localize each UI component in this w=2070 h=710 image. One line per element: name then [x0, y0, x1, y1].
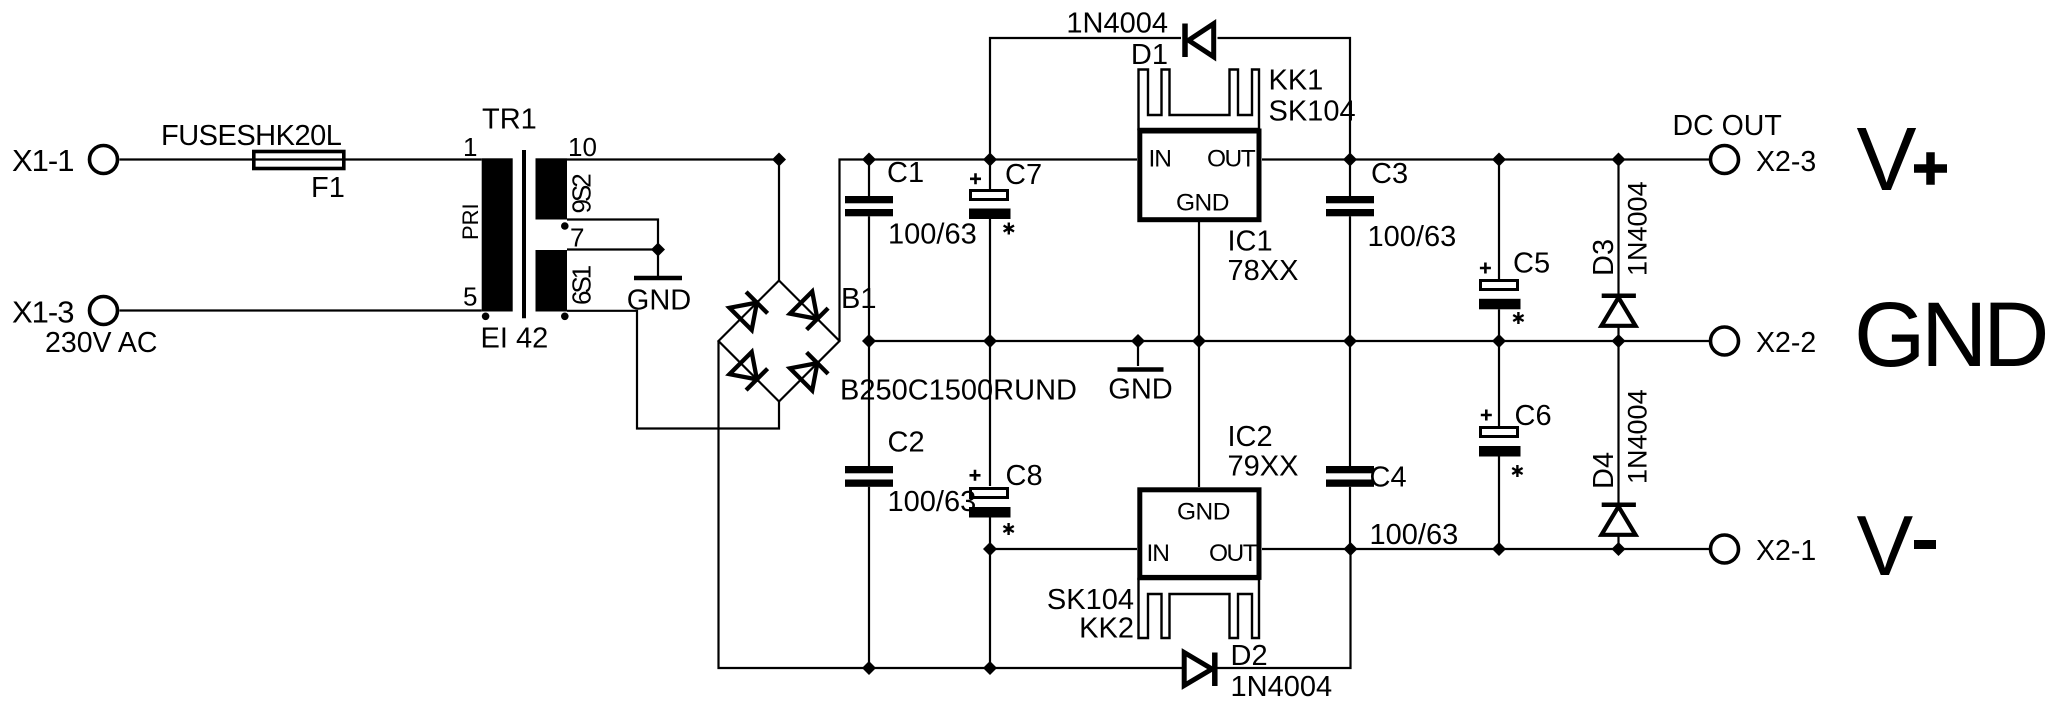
- svg-text:OUT: OUT: [1207, 146, 1256, 173]
- capacitor C2: [845, 341, 893, 668]
- svg-text:C7: C7: [1005, 159, 1042, 191]
- terminal X1-1: [90, 146, 118, 174]
- svg-text:KK2: KK2: [1079, 613, 1134, 645]
- capacitor C1: [845, 160, 893, 342]
- junction C1/C2 gnd: [862, 334, 876, 348]
- transformer TR1 secondary winding S2: [536, 158, 568, 219]
- svg-text:IN: IN: [1149, 146, 1172, 173]
- wire X1-1 to TR1 pin 1: [120, 158, 482, 160]
- svg-text:C5: C5: [1513, 248, 1550, 280]
- svg-text:1N4004: 1N4004: [1231, 671, 1333, 703]
- wire IC1 OUT to top rail: [1262, 158, 1350, 160]
- asterisk C6: [1512, 465, 1522, 477]
- pin dot TR1 pin 7: [561, 222, 569, 230]
- junction C2 bottom rail: [862, 661, 876, 675]
- gnd rail: [869, 340, 1709, 342]
- svg-text:1N4004: 1N4004: [1066, 8, 1168, 40]
- asterisk C5: [1513, 312, 1523, 324]
- junction gnd symbol: [1131, 334, 1145, 348]
- svg-text:IN: IN: [1147, 540, 1170, 567]
- bridge diode bottom-right: [790, 352, 828, 390]
- svg-text:6S1: 6S1: [567, 265, 597, 305]
- junction pin10/bridge: [772, 153, 786, 167]
- transformer TR1 core: [522, 150, 526, 318]
- svg-text:230V AC: 230V AC: [45, 327, 158, 359]
- wire TR1 pin 9 to center-tap junction: [567, 220, 658, 250]
- diode D1 loop wire: [990, 38, 1350, 160]
- fuse F1: [254, 152, 344, 169]
- capacitor C8 (electrolytic): [969, 341, 1011, 668]
- svg-text:C6: C6: [1515, 400, 1552, 432]
- heatsink KK1: [1139, 70, 1260, 130]
- top rail to output: [1350, 158, 1709, 160]
- svg-text:IC2: IC2: [1228, 421, 1273, 453]
- svg-text:D2: D2: [1231, 640, 1268, 672]
- wire IC2 IN: [990, 548, 1137, 550]
- terminal X2-3: [1711, 146, 1739, 174]
- svg-text:C1: C1: [887, 157, 924, 189]
- svg-text:X1-1: X1-1: [12, 143, 73, 178]
- voltage regulator IC2 box: [1140, 490, 1259, 578]
- svg-text:B250C1500RUND: B250C1500RUND: [840, 375, 1077, 407]
- svg-text:B1: B1: [841, 283, 876, 315]
- wire X1-3 to TR1 pin 5: [120, 309, 482, 311]
- transformer TR1 primary winding: [482, 158, 513, 311]
- wire TR1 pin 10 to bridge top: [567, 158, 779, 160]
- svg-text:V: V: [1857, 499, 1914, 594]
- svg-text:X2-3: X2-3: [1756, 146, 1816, 178]
- junction C8 / IC2 IN: [983, 542, 997, 556]
- svg-text:IC1: IC1: [1228, 226, 1273, 258]
- junction IC2 OUT / C4 / D2: [1344, 542, 1358, 556]
- svg-text:SK104: SK104: [1269, 96, 1356, 128]
- svg-text:1N4004: 1N4004: [1623, 181, 1653, 276]
- svg-text:1: 1: [463, 132, 477, 162]
- net label V-: [1857, 499, 1937, 594]
- svg-text:100/63: 100/63: [888, 486, 977, 518]
- junction D3 gnd: [1612, 334, 1626, 348]
- asterisk C7: [1004, 223, 1014, 235]
- wire TR1 pin 7 to center-tap junction: [567, 248, 658, 250]
- junction C6 bottom: [1492, 542, 1506, 556]
- svg-text:79XX: 79XX: [1228, 451, 1299, 483]
- terminal X2-1: [1711, 535, 1739, 563]
- pin dot TR1 pin 5: [482, 313, 490, 321]
- capacitor C6 (electrolytic): [1479, 341, 1521, 549]
- junction C5 top: [1492, 153, 1506, 167]
- svg-text:7: 7: [570, 223, 584, 253]
- plus sign C5: [1480, 263, 1491, 274]
- svg-text:1N4004: 1N4004: [1623, 389, 1653, 484]
- svg-text:100/63: 100/63: [1370, 519, 1459, 551]
- svg-text:C4: C4: [1370, 462, 1407, 494]
- svg-text:10: 10: [568, 132, 597, 162]
- voltage regulator IC1 box: [1140, 131, 1259, 220]
- svg-text:C3: C3: [1371, 158, 1408, 190]
- capacitor C7 (electrolytic): [969, 160, 1011, 342]
- svg-text:X2-2: X2-2: [1756, 327, 1816, 359]
- svg-text:GND: GND: [1854, 284, 2046, 386]
- junction C1 top: [862, 153, 876, 167]
- svg-text:5: 5: [463, 282, 477, 312]
- bridge diode top-left: [730, 292, 768, 330]
- svg-text:OUT: OUT: [1209, 540, 1258, 567]
- svg-text:GND: GND: [1108, 374, 1172, 406]
- plus sign C7: [970, 173, 981, 184]
- svg-text:DC OUT: DC OUT: [1673, 110, 1782, 142]
- heatsink KK2: [1139, 579, 1260, 638]
- svg-text:F1: F1: [311, 172, 345, 204]
- svg-text:D4: D4: [1588, 452, 1620, 489]
- capacitor C4: [1326, 341, 1374, 549]
- svg-text:D3: D3: [1588, 239, 1620, 276]
- plus sign C8: [970, 470, 981, 481]
- wire bridge top vertex up to AC node: [778, 160, 780, 281]
- svg-text:X2-1: X2-1: [1756, 535, 1816, 567]
- svg-text:100/63: 100/63: [888, 219, 977, 251]
- v-minus rail to output: [1351, 548, 1710, 550]
- svg-text:TR1: TR1: [482, 104, 537, 136]
- junction C5/C6 gnd: [1492, 334, 1506, 348]
- net label V+: [1857, 110, 1948, 210]
- svg-text:9S2: 9S2: [567, 174, 597, 214]
- svg-text:FUSESHK20L: FUSESHK20L: [161, 120, 342, 152]
- svg-text:GND: GND: [1176, 190, 1229, 217]
- bridge rectifier B1 outline: [719, 281, 840, 402]
- svg-text:KK1: KK1: [1269, 65, 1324, 97]
- svg-text:C2: C2: [888, 427, 925, 459]
- bridge diode top-right: [790, 292, 828, 330]
- junction C7/D1 top: [983, 153, 997, 167]
- svg-text:GND: GND: [1177, 499, 1230, 526]
- top rail V+ raw: bridge to IC1 IN: [869, 158, 1137, 160]
- plus sign C6: [1481, 410, 1492, 421]
- wire bridge right vertex to V+ raw rail: [840, 160, 870, 342]
- diode D2: [1184, 653, 1215, 687]
- svg-text:SK104: SK104: [1047, 584, 1134, 616]
- ground symbol at transformer center-tap: [634, 250, 682, 279]
- wire TR1 pin 6 to bridge bottom: [567, 311, 779, 429]
- svg-text:C8: C8: [1006, 460, 1043, 492]
- diode D3: [1602, 160, 1636, 342]
- svg-text:78XX: 78XX: [1228, 255, 1299, 287]
- svg-text:V: V: [1857, 110, 1917, 210]
- junction IC gnd: [1192, 334, 1206, 348]
- pin dot TR1 pin 6: [561, 313, 569, 321]
- junction D3 top: [1612, 153, 1626, 167]
- asterisk C8: [1003, 523, 1013, 535]
- junction C7/C8 gnd: [983, 334, 997, 348]
- junction C8 bottom rail: [983, 661, 997, 675]
- svg-text:100/63: 100/63: [1368, 221, 1457, 253]
- wire bridge left vertex to negative raw rail: [719, 341, 1184, 668]
- capacitor C5 (electrolytic): [1479, 160, 1521, 342]
- svg-text:X1-3: X1-3: [12, 295, 73, 330]
- diode D1: [1185, 24, 1214, 58]
- junction center-tap: [651, 243, 665, 257]
- wire IC2 OUT: [1262, 548, 1351, 550]
- ground symbol (middle): [1118, 341, 1164, 370]
- junction C3 gnd: [1343, 334, 1357, 348]
- transformer TR1 secondary winding S1: [536, 250, 568, 312]
- wire IC1 GND to rail to IC2 GND: [1198, 222, 1200, 487]
- wire D2 to IC2 OUT node: [1217, 549, 1351, 668]
- bridge diode bottom-left: [730, 352, 768, 390]
- terminal X1-3: [90, 297, 118, 325]
- junction D4 bottom: [1612, 542, 1626, 556]
- diode D4: [1602, 341, 1636, 549]
- junction IC1 OUT / D1 / C3: [1343, 153, 1357, 167]
- svg-text:D1: D1: [1131, 39, 1168, 71]
- svg-text:PRI: PRI: [458, 203, 483, 240]
- terminal X2-2: [1711, 327, 1739, 355]
- svg-text:EI 42: EI 42: [481, 323, 549, 355]
- capacitor C3: [1326, 160, 1374, 342]
